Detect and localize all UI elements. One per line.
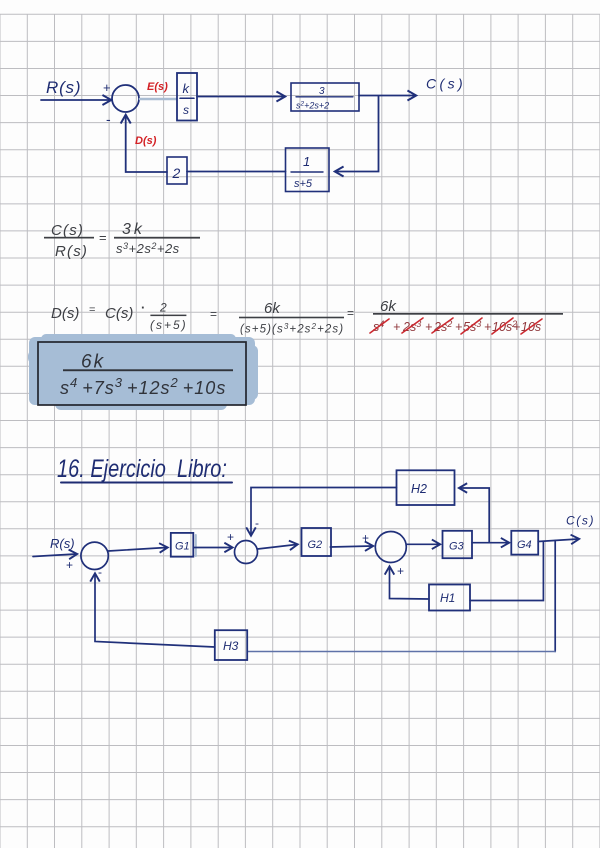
svg-text:+: + bbox=[455, 320, 462, 334]
plus sign at S1 bbox=[103, 80, 111, 95]
red crossed-out denominator bbox=[373, 319, 541, 334]
svg-text:C(s): C(s) bbox=[566, 514, 595, 528]
summing junction S3 bbox=[235, 541, 258, 564]
svg-text:C(s): C(s) bbox=[105, 305, 133, 322]
wire G1 to S3 bbox=[193, 547, 231, 549]
svg-text:D(s): D(s) bbox=[51, 305, 79, 322]
svg-text:G3: G3 bbox=[449, 541, 465, 553]
svg-text:G4: G4 bbox=[517, 539, 532, 551]
summing junction S4 bbox=[375, 532, 406, 563]
block H2 bbox=[397, 470, 455, 505]
svg-text:1: 1 bbox=[303, 154, 310, 169]
svg-text:+: + bbox=[66, 558, 73, 572]
block G3 bbox=[443, 531, 473, 558]
svg-text:s4 +7s3 +12s2 +10s: s4 +7s3 +12s2 +10s bbox=[60, 375, 226, 398]
svg-text:2: 2 bbox=[172, 165, 181, 181]
wire 1/(s+5) to block 2 bbox=[187, 171, 286, 173]
wire S1 to block k/s (grey highlighter stroke) bbox=[140, 98, 176, 101]
svg-text:R(s): R(s) bbox=[50, 536, 75, 551]
svg-text:=: = bbox=[347, 306, 354, 320]
svg-text:G1: G1 bbox=[175, 541, 190, 553]
svg-text:R(s): R(s) bbox=[46, 78, 81, 97]
svg-text:·: · bbox=[141, 300, 145, 315]
svg-text:+: + bbox=[513, 320, 520, 334]
svg-text:3k: 3k bbox=[122, 221, 145, 238]
svg-text:E(s): E(s) bbox=[147, 81, 168, 93]
svg-text:+: + bbox=[362, 531, 369, 545]
wire feedback tap down from output bbox=[336, 97, 379, 172]
summing junction S1 bbox=[112, 85, 139, 112]
node R(s) label bbox=[46, 78, 81, 97]
minus sign at S2 bbox=[98, 565, 102, 579]
svg-text:C(s): C(s) bbox=[426, 76, 466, 92]
block H1 bbox=[429, 585, 470, 611]
svg-text:s: s bbox=[183, 103, 189, 117]
svg-text:-: - bbox=[106, 111, 111, 127]
wire S4 to G3 bbox=[406, 543, 439, 545]
wire G3 to G4 bbox=[472, 542, 508, 544]
block 2 bbox=[167, 157, 187, 184]
svg-text:H1: H1 bbox=[440, 591, 455, 605]
minus sign at S3 bbox=[255, 516, 259, 530]
svg-text:3: 3 bbox=[319, 86, 325, 97]
wire S2 to G1 bbox=[108, 548, 166, 552]
node E(s) label (red) bbox=[147, 81, 168, 93]
plus sign at S4 bottom bbox=[397, 564, 404, 578]
block 3/(s^2+2s+2) bbox=[291, 83, 359, 111]
node C(s) label bbox=[426, 76, 466, 92]
svg-text:H2: H2 bbox=[411, 482, 427, 496]
plus sign at S4 input bbox=[362, 531, 369, 545]
block k/s bbox=[177, 73, 197, 121]
svg-text:-: - bbox=[98, 565, 102, 579]
svg-text:=: = bbox=[210, 307, 217, 321]
result box border bbox=[38, 342, 246, 405]
highlight marker fill bbox=[28, 334, 258, 410]
svg-text:16. Ejercicio Libro:: 16. Ejercicio Libro: bbox=[57, 455, 227, 483]
block 1/(s+5) bbox=[286, 148, 330, 192]
svg-text:2: 2 bbox=[159, 301, 167, 315]
wire H1 to S4 bottom bbox=[390, 568, 430, 600]
wire G2 to S4 bbox=[330, 546, 372, 547]
svg-text:+: + bbox=[484, 320, 491, 334]
result fraction 6k / (s^4+7s^3+12s^2+10s) bbox=[60, 352, 233, 399]
svg-text:-: - bbox=[255, 516, 259, 530]
svg-text:+: + bbox=[393, 320, 400, 334]
minus sign at S1 bbox=[106, 111, 111, 127]
node D(s) label (red) bbox=[135, 135, 157, 147]
svg-text:+: + bbox=[397, 564, 404, 578]
wire tap to H3 (horizontal, lighter stroke) bbox=[247, 651, 555, 653]
wire block 2 to S1 bbox=[126, 116, 167, 172]
node R(s) label bbox=[50, 536, 75, 551]
wire tap to H1 bbox=[470, 542, 543, 601]
svg-text:R(s): R(s) bbox=[55, 243, 88, 260]
wire junction A up to H2 bbox=[460, 488, 489, 543]
wire k/s to plant block bbox=[197, 96, 284, 98]
wire plant to C(s) output bbox=[359, 95, 415, 97]
wire tap to H3 (vertical) bbox=[554, 541, 556, 652]
plus sign at S3 bbox=[227, 530, 234, 544]
summing junction S2 bbox=[81, 542, 108, 569]
wire S3 to G2 bbox=[258, 545, 297, 550]
block G2 bbox=[302, 528, 332, 556]
block H3 bbox=[215, 630, 247, 660]
svg-text:G2: G2 bbox=[308, 539, 323, 551]
wire H2 to S3 top bbox=[251, 488, 397, 535]
svg-text:D(s): D(s) bbox=[135, 135, 157, 147]
node C(s) label bbox=[566, 514, 595, 528]
plus sign at S2 bbox=[66, 558, 73, 572]
svg-text:6k: 6k bbox=[380, 298, 397, 315]
svg-text:(s+5)(s3+2s2+2s): (s+5)(s3+2s2+2s) bbox=[240, 322, 344, 336]
block G1 bbox=[171, 533, 194, 557]
svg-text:+: + bbox=[227, 530, 234, 544]
svg-text:(s+5): (s+5) bbox=[150, 318, 188, 332]
input wire bbox=[33, 554, 76, 557]
svg-text:6k: 6k bbox=[264, 300, 281, 317]
svg-text:C(s): C(s) bbox=[51, 222, 84, 239]
wire input to summing junction bbox=[41, 99, 110, 101]
svg-text:H3: H3 bbox=[223, 639, 239, 653]
svg-text:+: + bbox=[103, 80, 111, 95]
block G4 bbox=[511, 531, 538, 555]
svg-text:=: = bbox=[99, 230, 107, 245]
svg-text:s+5: s+5 bbox=[294, 178, 313, 190]
svg-text:=: = bbox=[89, 304, 95, 316]
output wire to C(s) bbox=[538, 539, 578, 542]
svg-text:+: + bbox=[425, 320, 432, 334]
wire H3 to S2 bottom bbox=[95, 575, 215, 648]
